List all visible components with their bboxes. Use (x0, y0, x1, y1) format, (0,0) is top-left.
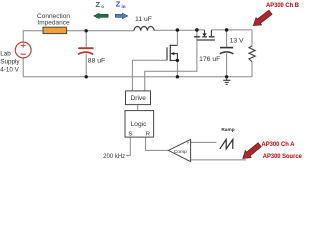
capacitor C2 176 uF (220, 48, 234, 54)
svg-text:Lab: Lab (0, 51, 11, 58)
svg-text:AP300 Source: AP300 Source (263, 153, 302, 160)
wire comparator plus input to ramp (191, 141, 217, 143)
svg-text:Supply: Supply (0, 59, 20, 66)
op-amp U1 comparator (168, 139, 190, 161)
svg-text:200 kHz: 200 kHz (103, 154, 125, 160)
inductor L1 (134, 26, 154, 30)
block Drive (126, 91, 151, 105)
ground (223, 77, 230, 85)
junction node Q2 drain (195, 28, 199, 32)
wire Q2 gate lead to Drive (145, 30, 197, 91)
svg-text:Drive: Drive (131, 95, 147, 102)
probe arrow AP300 Ch A / Source (243, 143, 261, 159)
wire C1 branch (85, 31, 87, 77)
svg-text:AP300 Ch B: AP300 Ch B (266, 2, 299, 9)
arrow Zo (green, pointing left) (94, 13, 109, 19)
voltage source V1 lab supply (15, 42, 31, 58)
junction node Q1 source/body (176, 59, 179, 62)
svg-text:Impedance: Impedance (37, 20, 70, 27)
wire top rail left (23, 31, 134, 42)
svg-text:11 uF: 11 uF (135, 16, 152, 23)
wire Q1 drain lead (170, 30, 177, 45)
svg-text:Comp: Comp (174, 149, 187, 155)
junction node Q1 drain (176, 28, 180, 32)
svg-text:4-10 V: 4-10 V (0, 67, 19, 74)
svg-text:S: S (128, 132, 132, 138)
junction node output top (225, 28, 229, 32)
svg-text:Logic: Logic (131, 121, 147, 128)
wire top rail right (154, 30, 252, 46)
svg-text:Ramp: Ramp (221, 127, 234, 133)
svg-text:13 V: 13 V (230, 37, 244, 44)
svg-text:Z: Z (116, 0, 121, 9)
junction node Q1 source at bottom rail (176, 75, 179, 78)
probe arrow AP300 Ch B (253, 10, 272, 26)
svg-text:in: in (122, 4, 126, 9)
wire Drive to Logic (137, 105, 139, 111)
wire Q1 gate lead to Drive (132, 60, 167, 91)
svg-text:R: R (146, 132, 150, 138)
svg-text:176 uF: 176 uF (199, 56, 220, 63)
junction node top of C1 (85, 29, 88, 32)
block Logic SR (125, 111, 154, 138)
svg-text:88 uF: 88 uF (88, 57, 105, 64)
transistor Q2 (horizontal MOSFET) (194, 30, 215, 40)
svg-text:+: + (187, 141, 190, 146)
svg-text:Z: Z (96, 0, 101, 9)
ramp source sawtooth (220, 139, 233, 149)
wire Logic S input, 200 kHz (126, 137, 130, 155)
junction node bottom ground (225, 75, 228, 78)
svg-text:AP300 Ch A: AP300 Ch A (262, 141, 295, 148)
capacitor C1 88 uF (78, 48, 94, 54)
junction node bottom of C1 (85, 75, 88, 78)
resistor R2 load (249, 46, 255, 62)
wire comparator minus input / injection line (191, 159, 246, 161)
resistor R1 connection impedance (43, 27, 67, 33)
wire C2 branch (226, 30, 228, 77)
wire bottom rail (23, 58, 252, 77)
arrow Zin (blue, pointing right) (115, 13, 128, 19)
wire Logic R input from comparator (146, 137, 169, 150)
transistor Q1 (vertical MOSFET) (167, 45, 177, 62)
svg-text:o: o (101, 4, 104, 9)
wire Q1 source lead (176, 60, 178, 76)
